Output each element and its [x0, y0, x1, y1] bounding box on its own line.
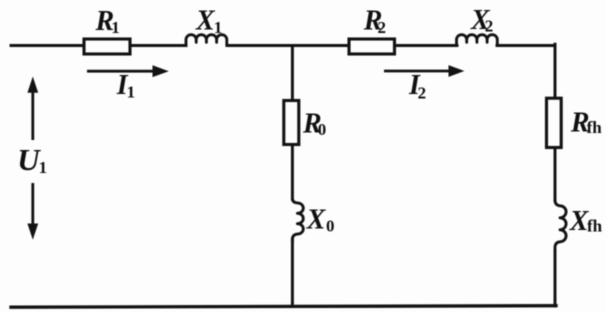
svg-text:I2: I2	[408, 70, 426, 103]
svg-text:U1: U1	[17, 142, 47, 177]
svg-text:R2: R2	[363, 5, 386, 37]
svg-text:X2: X2	[470, 5, 493, 36]
svg-text:X1: X1	[195, 6, 222, 37]
svg-text:I1: I1	[116, 70, 135, 101]
svg-text:R0: R0	[302, 108, 326, 139]
svg-text:R1: R1	[95, 6, 120, 37]
svg-text:Rfh: Rfh	[570, 107, 602, 138]
svg-text:Xfh: Xfh	[569, 206, 603, 237]
svg-text:X0: X0	[306, 205, 335, 236]
